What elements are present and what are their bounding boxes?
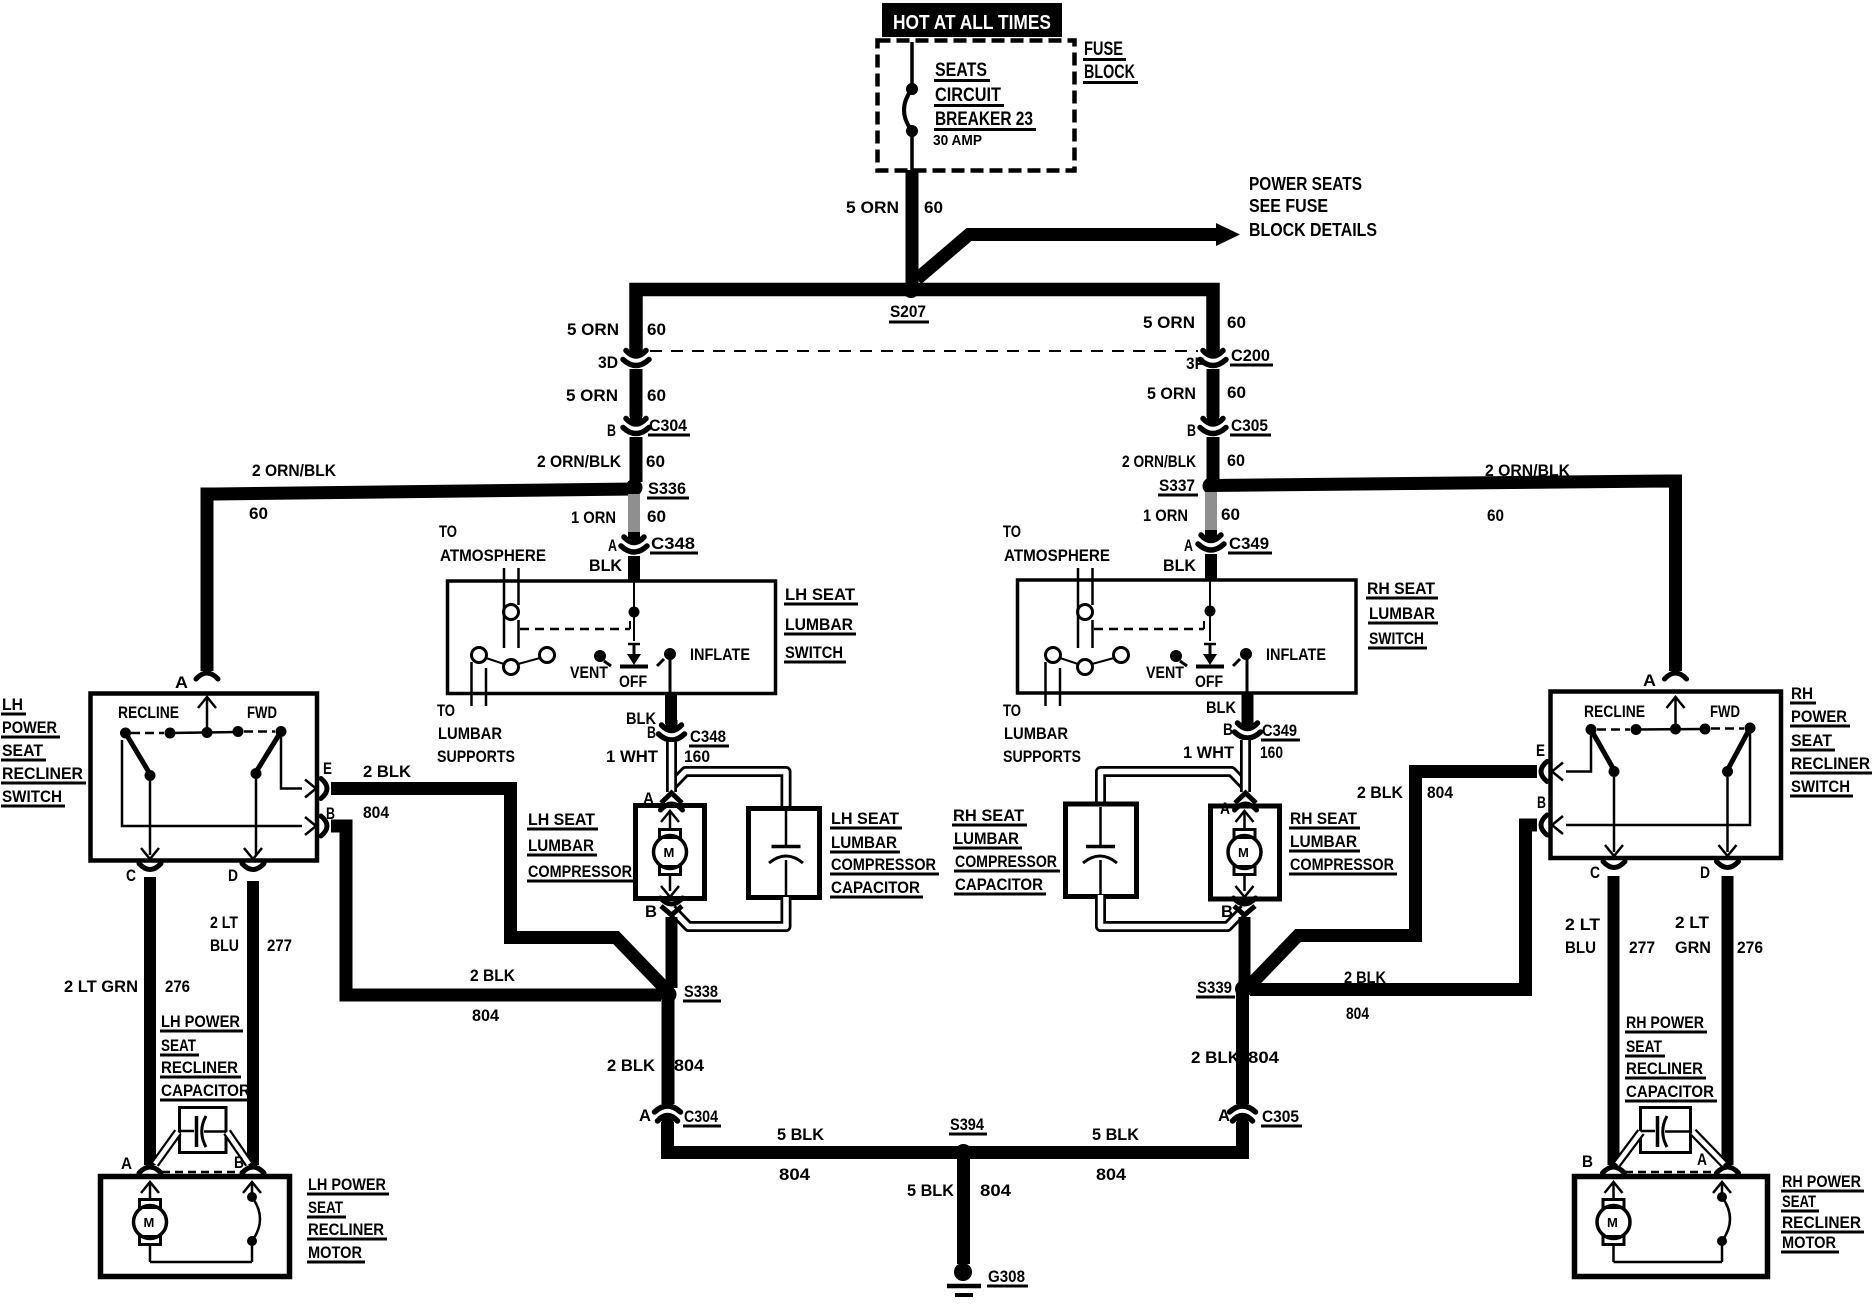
svg-text:60: 60 <box>647 507 666 526</box>
wire label 2 BLK B LH <box>470 966 516 985</box>
wire BLK from LH lumbar switch <box>665 694 677 724</box>
wire label BLK LH out <box>626 709 657 728</box>
svg-text:804: 804 <box>1248 1048 1280 1067</box>
wire label 804 E RH <box>1427 783 1453 802</box>
terminal A LH compressor <box>643 789 654 808</box>
wire 1 WHT hollow to LH compressor A <box>666 742 677 792</box>
label INFLATE RH <box>1266 645 1326 664</box>
svg-text:BLK: BLK <box>1163 556 1197 575</box>
svg-text:60: 60 <box>924 198 943 217</box>
svg-text:LH: LH <box>2 695 23 714</box>
wire label 1 WHT RH <box>1183 743 1235 762</box>
wire label 5 BLK left <box>777 1125 825 1144</box>
label BREAKER 23 <box>934 109 1036 130</box>
svg-text:B: B <box>1187 421 1196 440</box>
svg-text:SWITCH: SWITCH <box>1791 777 1850 796</box>
RH power seat recliner motor box <box>1575 1177 1768 1277</box>
svg-text:C: C <box>126 866 136 885</box>
LH seat lumbar compressor capacitor box <box>749 809 820 898</box>
connector D RH recliner <box>1717 845 1739 868</box>
wire label 804 ground <box>980 1181 1012 1200</box>
RH seat lumbar compressor capacitor box <box>1066 804 1137 897</box>
label SWITCH (recliner switch) <box>1 787 65 806</box>
terminal D LH recliner <box>228 866 238 885</box>
wire label 5 ORN left2 <box>566 386 618 405</box>
svg-text:OFF: OFF <box>619 672 647 691</box>
label VENT LH <box>570 663 609 682</box>
label POWER (recliner switch) <box>1 718 60 737</box>
wire 2 BLK from S339 to C305 <box>1236 989 1249 1104</box>
svg-text:5 ORN: 5 ORN <box>846 198 899 217</box>
terminal A RH motor <box>1697 1150 1707 1169</box>
junction S337 <box>1203 478 1220 495</box>
wire 5 BLK from S394 to ground <box>957 1152 970 1264</box>
connector A LH motor <box>139 1167 161 1173</box>
connector C348 B <box>659 720 685 740</box>
svg-text:C305: C305 <box>1231 416 1268 435</box>
junction S336 <box>626 479 643 496</box>
svg-text:A: A <box>639 1106 651 1125</box>
svg-text:A: A <box>1184 536 1193 555</box>
LH recliner motor switch arc <box>243 1182 261 1262</box>
wire label 60 right <box>1227 313 1246 332</box>
wire hollow from RH compressor B to capacitor <box>1101 895 1245 927</box>
svg-text:RECLINER: RECLINER <box>161 1058 238 1077</box>
svg-text:S339: S339 <box>1197 978 1232 997</box>
label CAPACITOR (cap RH) <box>954 875 1046 894</box>
svg-text:SEAT: SEAT <box>1626 1037 1663 1056</box>
label LH POWER (recl cap) <box>160 1012 243 1031</box>
LH recliner motor <box>134 1182 253 1262</box>
svg-text:2 ORN/BLK: 2 ORN/BLK <box>252 461 337 480</box>
RH INFLATE contact <box>1233 648 1252 666</box>
RH recliner motor <box>1597 1182 1722 1262</box>
wire label 60 right2 <box>1227 383 1246 402</box>
svg-text:804: 804 <box>779 1165 811 1184</box>
label RECLINE RH <box>1584 702 1645 721</box>
LH capacitor symbol <box>769 811 803 895</box>
RH power seat recliner switch box <box>1551 692 1782 859</box>
wire 1 ORN gray from S337 to C349 <box>1205 492 1217 533</box>
svg-text:C200: C200 <box>1231 346 1270 365</box>
wire 2 BLK LH compressor B to S338 <box>666 917 678 988</box>
wire label 804 E LH <box>363 803 389 822</box>
label RECLINER (recliner switch RH) <box>1790 754 1872 773</box>
svg-text:POWER: POWER <box>2 718 57 737</box>
svg-text:A: A <box>1643 671 1656 690</box>
LH lumbar switch wiper <box>620 582 648 667</box>
label C348 out <box>689 727 729 746</box>
terminal B C304 <box>607 421 616 440</box>
svg-text:60: 60 <box>1487 506 1504 525</box>
svg-text:SEAT: SEAT <box>1791 731 1833 750</box>
svg-text:TO: TO <box>439 522 457 541</box>
label RECLINER (motor RH) <box>1781 1213 1864 1232</box>
svg-text:5 ORN: 5 ORN <box>566 386 618 405</box>
terminal B RH recliner <box>1537 793 1546 812</box>
wire label 160 RH <box>1260 743 1283 762</box>
svg-text:B: B <box>607 421 616 440</box>
svg-text:LH POWER: LH POWER <box>161 1012 240 1031</box>
svg-text:5 BLK: 5 BLK <box>1092 1125 1140 1144</box>
wire label 2 BLK B RH <box>1344 968 1387 987</box>
wire label 804 S339 <box>1248 1048 1280 1067</box>
svg-text:C304: C304 <box>649 416 688 435</box>
svg-text:CIRCUIT: CIRCUIT <box>935 85 1001 106</box>
svg-text:INFLATE: INFLATE <box>1266 645 1326 664</box>
label COMPRESSOR (compressor) <box>527 862 635 881</box>
label POWER (recliner switch RH) <box>1790 707 1850 726</box>
svg-text:VENT: VENT <box>570 663 609 682</box>
svg-text:804: 804 <box>674 1056 705 1075</box>
label FWD RH <box>1710 702 1740 721</box>
svg-text:RH SEAT: RH SEAT <box>1290 809 1358 828</box>
terminal C LH recliner <box>126 866 136 885</box>
label C305 bottom <box>1261 1107 1302 1126</box>
note TO (lumbar RH) <box>1003 701 1021 720</box>
label RECLINE LH <box>118 703 179 722</box>
label C305 <box>1230 416 1271 435</box>
note SEE FUSE <box>1249 196 1328 216</box>
label FWD LH <box>247 703 277 722</box>
connector B LH compressor <box>661 898 683 915</box>
wire label BLK RH out <box>1206 698 1237 717</box>
svg-text:2 BLK: 2 BLK <box>363 762 412 781</box>
RH recliner right blade <box>1722 728 1750 852</box>
terminal A C305 bottom <box>1218 1106 1230 1125</box>
svg-text:S336: S336 <box>648 479 686 498</box>
svg-text:804: 804 <box>1346 1004 1369 1023</box>
svg-text:TO: TO <box>437 701 455 720</box>
svg-text:60: 60 <box>1227 383 1246 402</box>
svg-text:B: B <box>1537 793 1546 812</box>
note SUPPORTS RH <box>1003 747 1081 766</box>
svg-text:ATMOSPHERE: ATMOSPHERE <box>1004 546 1110 565</box>
label SEATS <box>934 60 990 81</box>
wire 5 ORN below C200 right <box>1207 369 1220 417</box>
wire label 1 WHT LH <box>606 747 659 766</box>
note ATMOSPHERE LH <box>440 546 546 565</box>
LH dashed valve link <box>520 621 630 629</box>
label RH SEAT (compressor) <box>1289 809 1360 828</box>
svg-text:BREAKER 23: BREAKER 23 <box>935 109 1033 130</box>
RH inflate wire inside box <box>1246 659 1249 693</box>
svg-text:C349: C349 <box>1262 721 1297 740</box>
RH VENT contact <box>1170 650 1187 666</box>
power feed label HOT AT ALL TIMES <box>882 3 1062 37</box>
label MOTOR (motor) <box>307 1243 365 1262</box>
label COMPRESSOR (compressor RH) <box>1289 855 1397 874</box>
svg-text:2 BLK: 2 BLK <box>1344 968 1387 987</box>
svg-text:60: 60 <box>647 320 666 339</box>
svg-text:2 BLK: 2 BLK <box>1357 783 1404 802</box>
label SEAT (motor RH) <box>1781 1192 1819 1211</box>
terminal E RH recliner <box>1536 741 1545 760</box>
label LUMBAR (switch RH) <box>1368 604 1438 623</box>
svg-text:COMPRESSOR: COMPRESSOR <box>1290 855 1394 874</box>
junction S207 <box>903 281 920 298</box>
svg-text:C304: C304 <box>684 1107 718 1126</box>
label SEAT (recl cap) <box>160 1036 199 1055</box>
svg-text:RECLINER: RECLINER <box>1782 1213 1861 1232</box>
connector C305 top <box>1200 414 1226 434</box>
svg-text:2 ORN/BLK: 2 ORN/BLK <box>1485 461 1571 480</box>
connector C349 B <box>1235 718 1261 738</box>
svg-text:SWITCH: SWITCH <box>2 787 62 806</box>
svg-text:SEAT: SEAT <box>1782 1192 1816 1211</box>
svg-text:A: A <box>175 673 188 692</box>
wire label 804 S338 <box>674 1056 705 1075</box>
wire 2 ORN/BLK right <box>1207 437 1220 481</box>
svg-text:RH POWER: RH POWER <box>1782 1172 1861 1191</box>
terminal A C348 <box>608 536 617 555</box>
svg-text:B: B <box>1221 902 1233 921</box>
LH seat lumbar switch box <box>448 581 776 694</box>
svg-text:RH: RH <box>1791 684 1813 703</box>
wire label 276 LH <box>165 977 190 996</box>
svg-text:BLK: BLK <box>1206 698 1237 717</box>
svg-text:2 LT: 2 LT <box>1565 915 1601 934</box>
wire BLK into RH lumbar switch <box>1205 554 1217 580</box>
label S337 <box>1158 476 1198 495</box>
wire 2 ORN/BLK from S336 to LH recliner switch A <box>207 489 634 671</box>
svg-text:D: D <box>228 866 238 885</box>
label S339 <box>1196 978 1235 997</box>
LH power seat recliner switch box <box>91 694 318 861</box>
RH vent valve assembly <box>1046 568 1129 706</box>
label S207 <box>889 302 929 322</box>
svg-text:TO: TO <box>1003 522 1021 541</box>
connector C304 top <box>623 414 649 434</box>
svg-text:2 LT GRN: 2 LT GRN <box>64 977 138 996</box>
connector C348 A <box>621 532 647 552</box>
LH power seat recliner capacitor box <box>180 1108 227 1153</box>
terminal B LH recliner <box>326 804 335 823</box>
svg-text:60: 60 <box>1221 505 1240 524</box>
svg-text:SEATS: SEATS <box>935 60 987 81</box>
svg-text:RH POWER: RH POWER <box>1626 1013 1704 1032</box>
label SWITCH (switch RH) <box>1368 629 1427 648</box>
connector C349 A <box>1198 530 1224 550</box>
LH compressor motor <box>654 811 687 897</box>
svg-text:RECLINE: RECLINE <box>118 703 179 722</box>
wire label 5 BLK right <box>1092 1125 1140 1144</box>
connector 3D C200 left <box>623 346 649 366</box>
arrow to power seats fuse block details <box>917 223 1240 279</box>
terminal B RH motor <box>1582 1152 1593 1171</box>
connector A LH recliner <box>196 673 218 679</box>
connector C304 bottom <box>655 1106 681 1126</box>
svg-text:SEE FUSE: SEE FUSE <box>1249 196 1328 216</box>
svg-text:RECLINER: RECLINER <box>2 764 83 783</box>
svg-text:M: M <box>1607 1215 1618 1230</box>
wire label GRN RH <box>1675 938 1711 957</box>
wire 5 BLK from C305 to S394 <box>963 1122 1243 1153</box>
label COMPRESSOR (cap RH) <box>954 852 1060 871</box>
terminal A RH recliner <box>1643 671 1656 690</box>
svg-text:MOTOR: MOTOR <box>1782 1233 1836 1252</box>
svg-text:C349: C349 <box>1229 534 1269 553</box>
bus wire from S207 to left and right branches <box>636 290 1213 351</box>
svg-text:HOT AT ALL TIMES: HOT AT ALL TIMES <box>893 12 1051 34</box>
terminal 3D <box>598 353 618 372</box>
svg-text:COMPRESSOR: COMPRESSOR <box>528 862 632 881</box>
svg-text:C: C <box>1590 863 1600 882</box>
wire label 2 LT RH-C <box>1565 915 1601 934</box>
wire 1 WHT hollow branch to LH capacitor <box>672 772 787 807</box>
note ATMOSPHERE RH <box>1004 546 1110 565</box>
label C200 <box>1230 346 1273 365</box>
svg-text:COMPRESSOR: COMPRESSOR <box>955 852 1057 871</box>
connector E LH recliner <box>321 779 327 799</box>
svg-text:M: M <box>1238 845 1249 860</box>
label RH POWER (motor) <box>1781 1172 1864 1191</box>
connector C RH recliner <box>1603 845 1625 868</box>
note LUMBAR RH <box>1004 724 1068 743</box>
label LH SEAT (compressor) <box>527 810 598 829</box>
LH recliner right blade <box>251 732 282 856</box>
label INFLATE LH <box>690 645 750 664</box>
label VENT RH <box>1146 663 1185 682</box>
wire label 2 ORN/BLK left <box>537 452 622 471</box>
wire 2 LT BLU from RH recliner C <box>1608 876 1620 1165</box>
wire label 2 LT RH-D <box>1675 913 1710 932</box>
svg-text:LUMBAR: LUMBAR <box>785 615 853 634</box>
label C349 <box>1228 534 1272 553</box>
RH seat lumbar compressor box <box>1211 806 1280 899</box>
wire BLK into LH lumbar switch <box>628 556 640 582</box>
svg-text:277: 277 <box>1629 938 1655 957</box>
svg-text:OFF: OFF <box>1195 672 1223 691</box>
svg-text:CAPACITOR: CAPACITOR <box>1626 1082 1714 1101</box>
svg-text:SUPPORTS: SUPPORTS <box>437 747 515 766</box>
svg-text:GRN: GRN <box>1675 938 1711 957</box>
svg-text:LUMBAR: LUMBAR <box>831 833 897 852</box>
wire label 804 B LH <box>472 1006 500 1025</box>
terminal A LH recliner <box>175 673 188 692</box>
svg-text:RH SEAT: RH SEAT <box>953 806 1025 825</box>
svg-text:SUPPORTS: SUPPORTS <box>1003 747 1081 766</box>
RH seat lumbar switch box <box>1018 580 1357 693</box>
svg-text:2 BLK: 2 BLK <box>470 966 516 985</box>
svg-text:RECLINER: RECLINER <box>308 1220 384 1239</box>
label 30 AMP <box>933 132 982 149</box>
svg-text:A: A <box>1218 1106 1230 1125</box>
RH recliner E link <box>1552 735 1591 781</box>
label RH (recliner switch) <box>1790 684 1816 703</box>
label SEAT (recl cap RH) <box>1625 1037 1665 1056</box>
wire label 2 BLK S338 <box>607 1056 656 1075</box>
wire 5 ORN 60 from breaker to S207 <box>906 170 919 288</box>
svg-text:SEAT: SEAT <box>161 1036 196 1055</box>
svg-text:LUMBAR: LUMBAR <box>1004 724 1068 743</box>
svg-text:MOTOR: MOTOR <box>308 1243 362 1262</box>
svg-text:60: 60 <box>1227 451 1245 470</box>
wire label 60 right3 <box>1227 451 1245 470</box>
svg-text:SWITCH: SWITCH <box>1369 629 1424 648</box>
wire label 2 BLK S339 <box>1191 1048 1241 1067</box>
svg-text:COMPRESSOR: COMPRESSOR <box>831 855 936 874</box>
svg-text:BLOCK DETAILS: BLOCK DETAILS <box>1249 220 1377 240</box>
connector A RH recliner <box>1665 673 1687 679</box>
wire 2 LT GRN from LH recliner C <box>144 877 156 1165</box>
connector B RH compressor <box>1234 898 1256 915</box>
svg-text:277: 277 <box>267 936 292 955</box>
ground G308 symbol <box>947 1263 981 1295</box>
label CIRCUIT <box>934 85 1004 106</box>
terminal B C348 out <box>647 723 656 742</box>
LH recliner left blade <box>126 733 156 855</box>
label MOTOR (motor RH) <box>1781 1233 1839 1252</box>
LH vent valve assembly <box>472 568 555 706</box>
wire label 60 right4 <box>1221 505 1240 524</box>
label S336 <box>647 479 689 498</box>
wire 2 ORN/BLK from S337 to RH recliner switch A <box>1211 481 1676 671</box>
svg-text:60: 60 <box>249 504 268 523</box>
label LH SEAT (cap) <box>830 809 902 828</box>
connector A LH compressor <box>661 793 683 810</box>
label RH SEAT (switch) <box>1366 579 1438 598</box>
svg-text:VENT: VENT <box>1146 663 1185 682</box>
junction S338 <box>660 986 677 1003</box>
svg-text:2 BLK: 2 BLK <box>607 1056 656 1075</box>
svg-text:804: 804 <box>363 803 389 822</box>
label OFF RH <box>1195 672 1223 691</box>
wire label BLU LH <box>210 936 239 955</box>
wire label 2 LT GRN <box>64 977 138 996</box>
wire label 804 B RH <box>1346 1004 1369 1023</box>
label COMPRESSOR (cap) <box>830 855 939 874</box>
svg-text:C348: C348 <box>651 534 695 553</box>
svg-text:FWD: FWD <box>1710 702 1740 721</box>
svg-text:276: 276 <box>165 977 190 996</box>
svg-text:160: 160 <box>1260 743 1283 762</box>
svg-text:CAPACITOR: CAPACITOR <box>955 875 1043 894</box>
connector B LH recliner <box>321 816 327 836</box>
svg-text:RECLINER: RECLINER <box>1626 1059 1703 1078</box>
svg-text:BLOCK: BLOCK <box>1084 62 1135 83</box>
LH recliner B link <box>122 740 316 835</box>
wire label BLK left <box>589 556 623 575</box>
terminal A LH motor <box>121 1154 132 1173</box>
svg-text:2 ORN/BLK: 2 ORN/BLK <box>537 452 622 471</box>
terminal B C349 out <box>1223 720 1233 739</box>
wire 2 LT BLU from LH recliner D <box>247 881 259 1165</box>
svg-text:2 BLK: 2 BLK <box>1191 1048 1241 1067</box>
wire label 276 RH <box>1737 938 1763 957</box>
svg-text:A: A <box>608 536 617 555</box>
wire BLK from RH lumbar switch <box>1242 693 1254 722</box>
wire label 60 LH recliner <box>249 504 268 523</box>
svg-text:B: B <box>1582 1152 1593 1171</box>
svg-text:5 BLK: 5 BLK <box>777 1125 825 1144</box>
svg-text:3D: 3D <box>598 353 618 372</box>
label LH SEAT (switch) <box>784 585 858 604</box>
LH inflate wire inside box <box>669 659 672 694</box>
wire label BLK right <box>1163 556 1197 575</box>
wire hollow RH motor B to capacitor <box>1617 1132 1641 1164</box>
wire hollow LH motor B to capacitor <box>227 1132 249 1164</box>
svg-text:C348: C348 <box>690 727 726 746</box>
svg-text:60: 60 <box>646 452 665 471</box>
terminal E LH recliner <box>323 759 332 778</box>
svg-text:D: D <box>1700 863 1710 882</box>
label S338 <box>683 982 721 1001</box>
label LUMBAR (switch) <box>784 615 856 634</box>
wire label 5 ORN left <box>567 320 619 339</box>
label RH SEAT (cap) <box>952 806 1027 825</box>
RH recliner pivot line <box>1586 723 1756 736</box>
